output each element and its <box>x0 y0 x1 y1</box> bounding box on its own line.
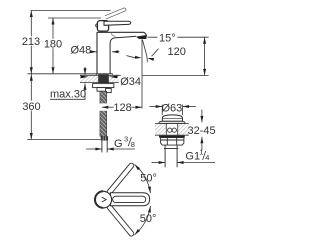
svg-text:G1: G1 <box>185 150 200 162</box>
svg-text:3: 3 <box>124 134 128 143</box>
svg-text:Ø48: Ø48 <box>71 44 92 56</box>
svg-text:15°: 15° <box>159 32 176 44</box>
svg-text:4: 4 <box>205 153 209 162</box>
svg-text:180: 180 <box>44 39 62 51</box>
svg-text:max.30: max.30 <box>50 89 86 101</box>
svg-text:Ø34: Ø34 <box>120 76 141 88</box>
svg-text:128: 128 <box>113 102 131 114</box>
svg-text:G: G <box>114 138 123 150</box>
svg-text:1: 1 <box>199 148 203 157</box>
svg-text:50°: 50° <box>140 173 157 185</box>
svg-text:8: 8 <box>131 140 135 149</box>
svg-text:50°: 50° <box>140 213 157 225</box>
svg-text:32-45: 32-45 <box>188 125 216 137</box>
svg-text:360: 360 <box>22 101 40 113</box>
svg-text:213: 213 <box>22 36 40 48</box>
svg-text:120: 120 <box>168 46 186 58</box>
svg-text:Ø63: Ø63 <box>162 102 183 114</box>
